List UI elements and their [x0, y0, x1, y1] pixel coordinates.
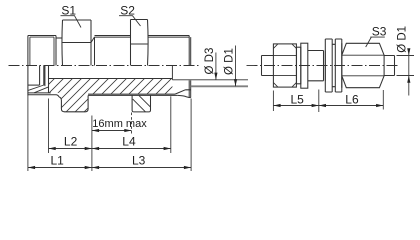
svg-text:L1: L1: [51, 153, 65, 167]
panel nut middle facet: [332, 44, 335, 86]
lower tube wall: [28, 84, 40, 86]
label S2: [119, 4, 141, 27]
svg-text:L5: L5: [291, 92, 305, 106]
hex S1 face line: [63, 42, 92, 44]
lower hex S2 locknut section: [132, 96, 150, 112]
left nut hex: [273, 44, 296, 87]
centerline right figure: [247, 65, 400, 67]
dia D1 right arrows: [407, 48, 410, 55]
label S3: [366, 25, 387, 48]
dimension L3: [92, 99, 191, 172]
tube stub left: [262, 56, 274, 76]
right figure: [247, 39, 400, 92]
right end face double line upper: [189, 36, 191, 66]
lower body thread double line: [88, 94, 178, 95]
label S1: [61, 4, 82, 28]
hex S1 outline: [62, 20, 91, 66]
dimension dia D1 right figure ticks: [397, 54, 415, 96]
nut left end cap inner chamfer lines: [30, 37, 54, 65]
dimension dia D3 arrow: [215, 53, 217, 80]
threaded body right of hex S2: [148, 36, 190, 38]
centerline left figure: [9, 65, 200, 67]
dimension dia D1 arrow left figure: [235, 46, 237, 87]
right hex S3 face lines: [342, 55, 384, 76]
dia D1 extension line: [191, 85, 248, 87]
washer: [301, 43, 308, 88]
lower tube end face: [48, 66, 50, 93]
lower hex S1 section bulge: [59, 96, 88, 112]
svg-text:Ø D3: Ø D3: [204, 48, 216, 75]
hex S2 face line: [131, 43, 148, 45]
right end lower chamfer: [175, 90, 191, 94]
svg-text:L3: L3: [132, 153, 146, 167]
svg-text:L2: L2: [64, 134, 78, 148]
lower tube bore verticals: [40, 66, 45, 87]
dimension 16mm max: [92, 113, 132, 172]
dimension L5: [273, 90, 318, 113]
svg-text:Ø D1: Ø D1: [224, 48, 236, 75]
right end face double line lower: [189, 80, 191, 97]
dimension L2: [49, 99, 92, 154]
right hex S3: [342, 43, 384, 87]
dimension L6: [319, 90, 384, 110]
counterbore and D3 extension line: [172, 66, 248, 80]
svg-text:16mm max: 16mm max: [92, 118, 147, 130]
body thread section: [308, 51, 324, 81]
panel nut tall ring 2: [335, 39, 342, 92]
svg-text:L4: L4: [122, 134, 136, 148]
bore line: [49, 78, 173, 80]
body step at hex S1 right: [91, 37, 95, 66]
left nut face lines: [273, 55, 296, 75]
tube stub right: [384, 56, 394, 76]
cutting ring slant lines: [28, 85, 48, 93]
lower nut outer left edge: [27, 66, 29, 96]
lower nut bottom lines: [28, 93, 59, 97]
panel nut tall ring 1: [325, 39, 332, 92]
nut left end cap outer: [28, 36, 56, 66]
body end second line: [324, 51, 326, 81]
svg-text:L6: L6: [345, 92, 359, 106]
svg-text:S3: S3: [372, 25, 387, 39]
dimension L4: [92, 96, 171, 153]
ring after left nut: [297, 47, 301, 84]
body section hatching: [18, 69, 209, 116]
threaded body lines between hexes: [95, 36, 131, 38]
locknut section hatch: [133, 96, 151, 112]
neck between nut and hex S1: [56, 37, 63, 39]
dimension L1: [28, 96, 92, 172]
hex S2 outline: [131, 20, 149, 66]
right end lower outline: [178, 95, 191, 97]
svg-text:Ø D1: Ø D1: [397, 26, 409, 53]
